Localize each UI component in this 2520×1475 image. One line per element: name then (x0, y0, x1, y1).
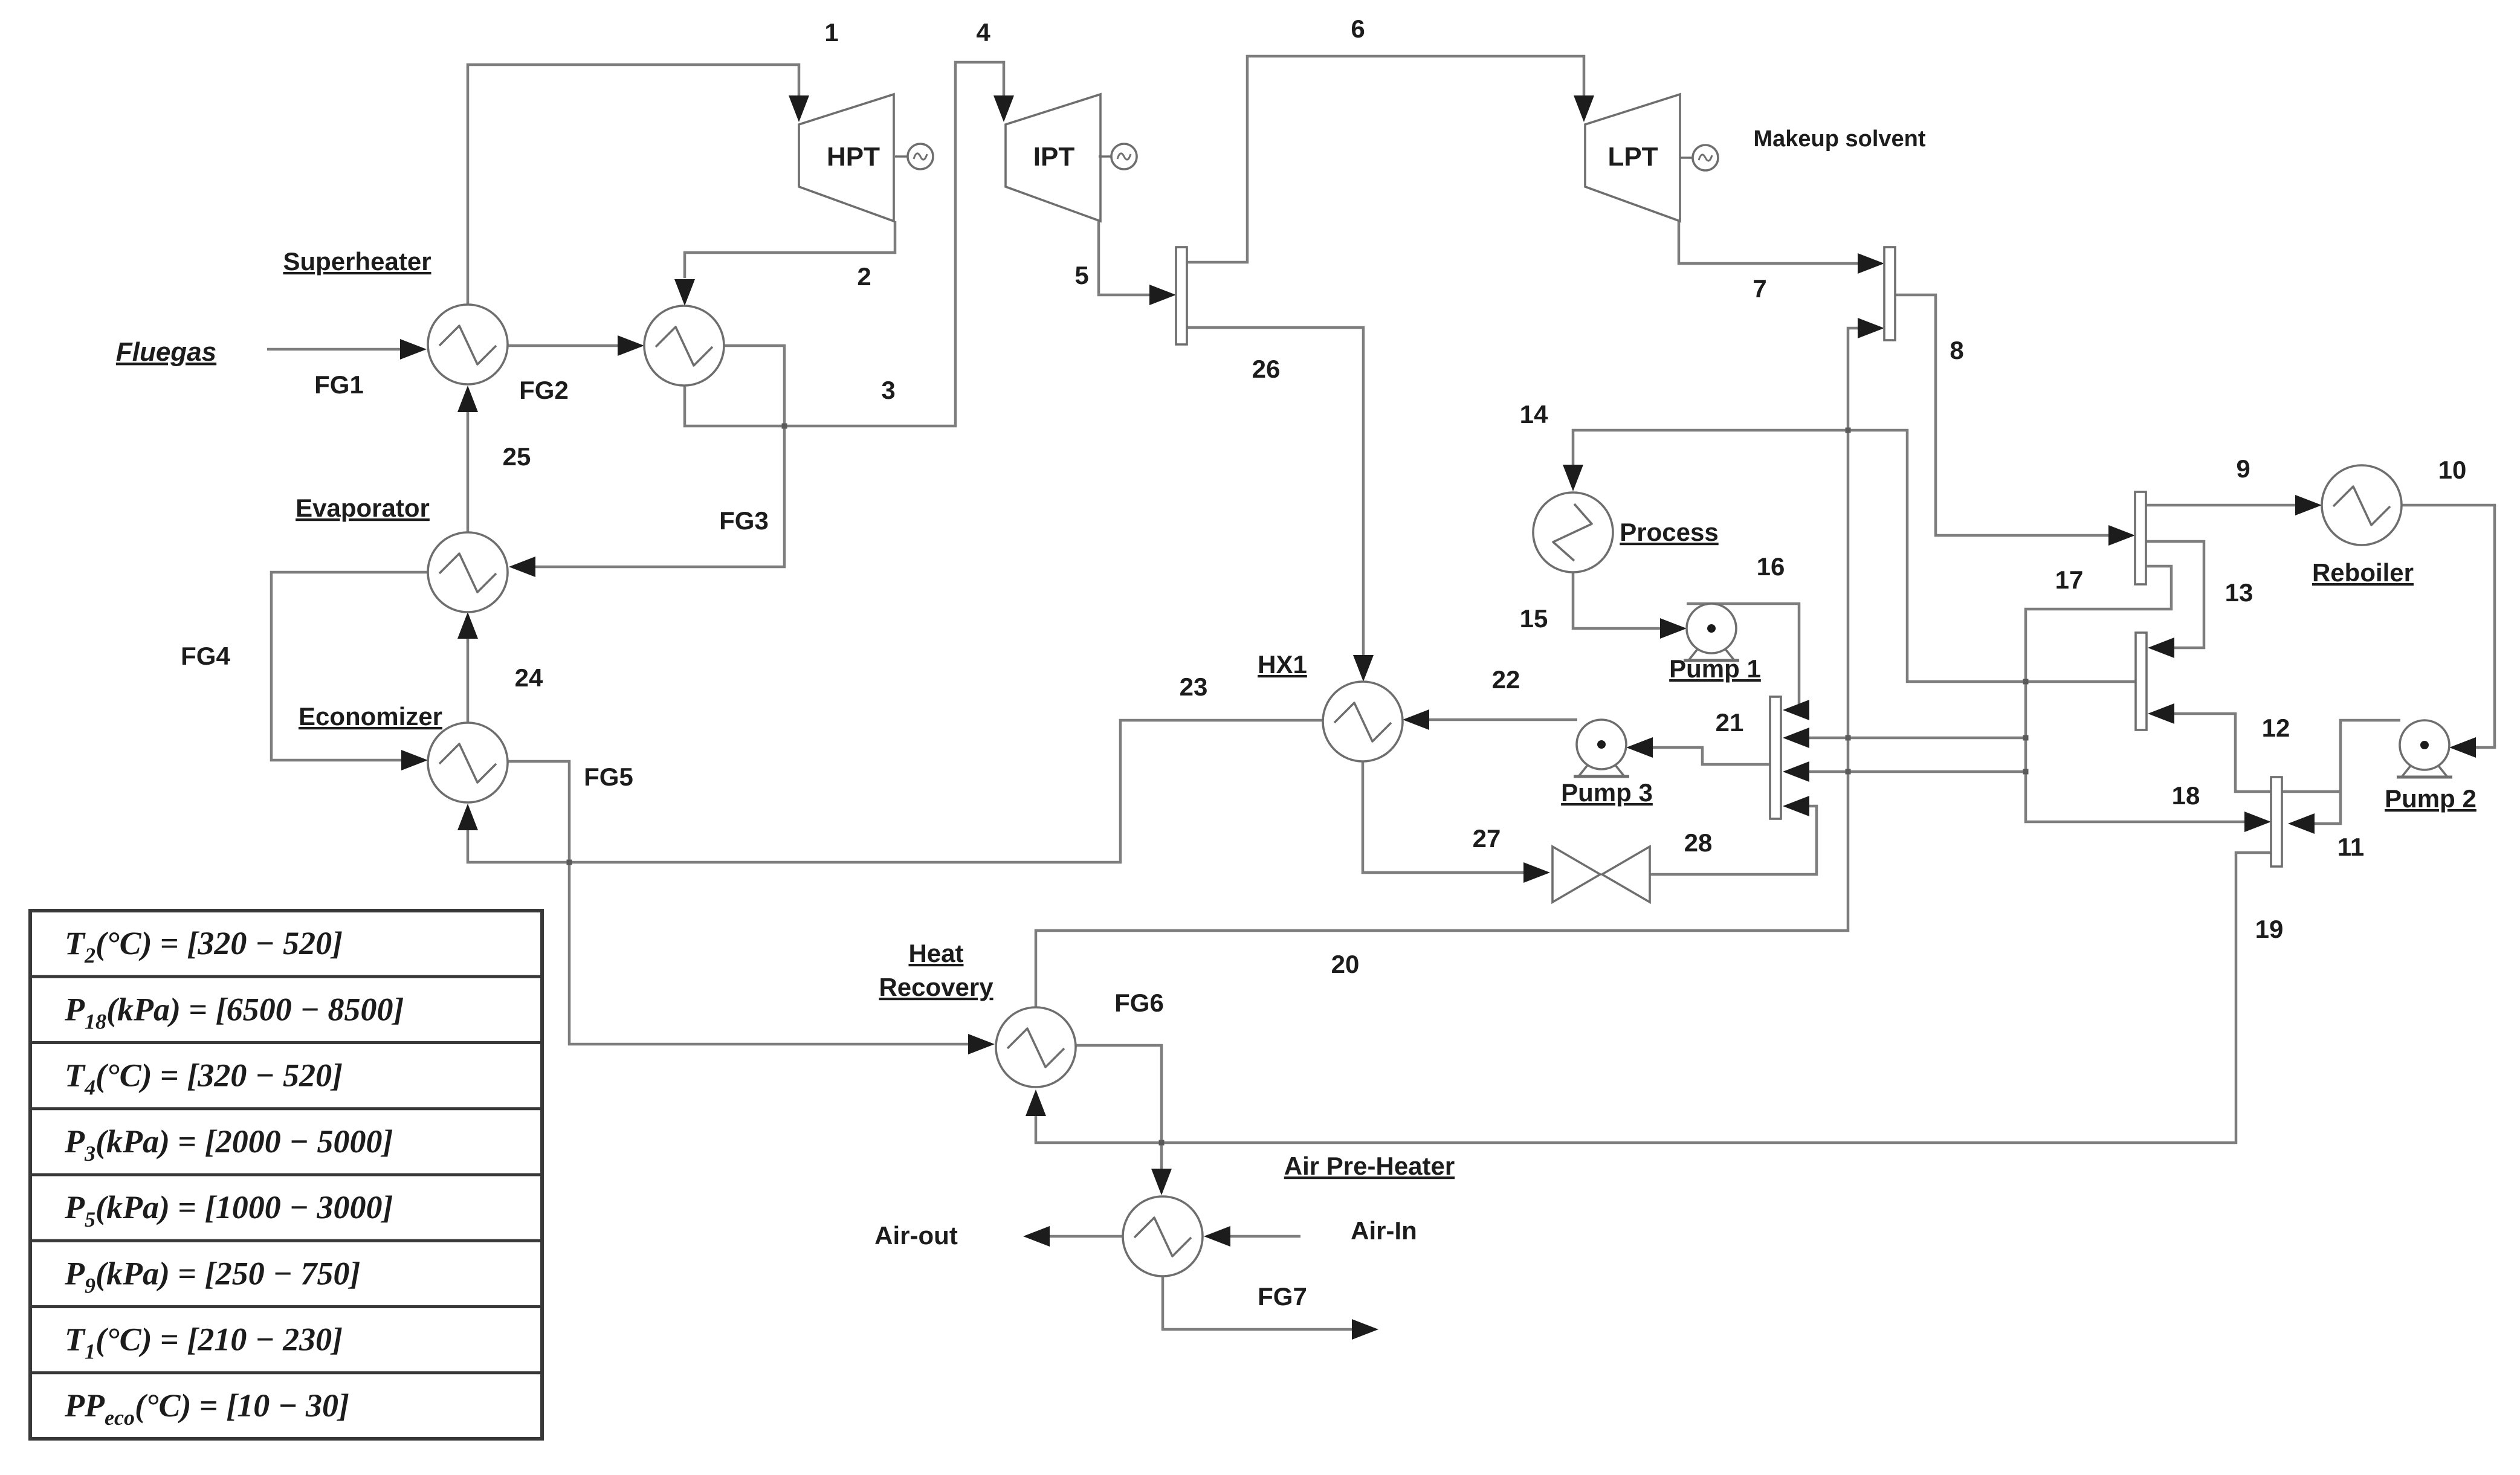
svg-text:24: 24 (515, 663, 543, 692)
svg-text:17: 17 (2055, 566, 2084, 594)
svg-text:8: 8 (1950, 336, 1963, 364)
svg-text:14: 14 (1520, 400, 1548, 428)
svg-text:21: 21 (1716, 708, 1744, 737)
svg-text:4: 4 (976, 18, 990, 47)
svg-text:15: 15 (1520, 604, 1548, 633)
svg-text:25: 25 (503, 442, 531, 471)
svg-text:P5(kPa) = [1000 − 3000]: P5(kPa) = [1000 − 3000] (64, 1189, 393, 1231)
svg-text:20: 20 (1331, 950, 1360, 978)
svg-text:28: 28 (1684, 828, 1713, 857)
svg-text:P9(kPa) = [250 − 750]: P9(kPa) = [250 − 750] (64, 1255, 360, 1297)
svg-text:Air-In: Air-In (1351, 1216, 1417, 1245)
svg-text:Superheater: Superheater (283, 247, 431, 276)
svg-text:FG6: FG6 (1114, 989, 1164, 1017)
svg-text:13: 13 (2225, 578, 2253, 607)
svg-text:Pump 3: Pump 3 (1561, 778, 1653, 807)
svg-text:26: 26 (1252, 355, 1281, 383)
svg-text:Reboiler: Reboiler (2312, 558, 2414, 587)
svg-text:P18(kPa) = [6500 − 8500]: P18(kPa) = [6500 − 8500] (64, 991, 404, 1033)
svg-text:FG3: FG3 (719, 506, 769, 535)
svg-text:9: 9 (2236, 454, 2250, 483)
svg-text:FG5: FG5 (584, 763, 633, 791)
svg-text:T2(°C) = [320 − 520]: T2(°C) = [320 − 520] (65, 925, 343, 967)
svg-text:FG4: FG4 (181, 642, 230, 670)
svg-text:FG7: FG7 (1258, 1282, 1307, 1311)
svg-text:27: 27 (1473, 824, 1501, 853)
svg-text:Recovery: Recovery (879, 973, 993, 1001)
svg-text:7: 7 (1753, 274, 1766, 303)
svg-text:Economizer: Economizer (299, 702, 442, 731)
svg-text:P3(kPa) = [2000 − 5000]: P3(kPa) = [2000 − 5000] (64, 1123, 393, 1166)
svg-text:T1(°C) = [210 − 230]: T1(°C) = [210 − 230] (65, 1322, 343, 1364)
svg-text:Makeup solvent: Makeup solvent (1753, 126, 1925, 152)
svg-text:HX1: HX1 (1258, 650, 1307, 679)
svg-text:Air-out: Air-out (874, 1221, 958, 1250)
svg-text:19: 19 (2255, 915, 2284, 943)
svg-text:10: 10 (2438, 456, 2467, 484)
svg-text:5: 5 (1074, 261, 1088, 289)
svg-text:23: 23 (1180, 673, 1208, 701)
svg-text:22: 22 (1492, 665, 1520, 694)
svg-text:Fluegas: Fluegas (116, 337, 216, 367)
svg-text:1: 1 (824, 18, 838, 47)
svg-text:IPT: IPT (1033, 142, 1075, 172)
svg-text:Process: Process (1620, 518, 1718, 546)
svg-text:18: 18 (2172, 781, 2200, 810)
svg-text:Evaporator: Evaporator (296, 494, 430, 522)
svg-text:Heat: Heat (908, 939, 963, 967)
svg-text:Pump 2: Pump 2 (2385, 784, 2476, 813)
svg-text:11: 11 (2337, 833, 2364, 861)
svg-text:T4(°C) = [320 − 520]: T4(°C) = [320 − 520] (65, 1057, 343, 1100)
svg-text:FG1: FG1 (314, 370, 364, 399)
svg-text:3: 3 (881, 376, 895, 404)
svg-text:LPT: LPT (1607, 142, 1658, 172)
svg-text:16: 16 (1757, 552, 1785, 581)
svg-text:12: 12 (2262, 714, 2290, 742)
svg-text:HPT: HPT (827, 142, 880, 172)
svg-text:6: 6 (1351, 15, 1365, 43)
svg-text:FG2: FG2 (519, 376, 569, 404)
svg-text:2: 2 (857, 262, 871, 291)
svg-text:Pump 1: Pump 1 (1669, 654, 1761, 683)
svg-text:Air Pre-Heater: Air Pre-Heater (1284, 1152, 1455, 1180)
